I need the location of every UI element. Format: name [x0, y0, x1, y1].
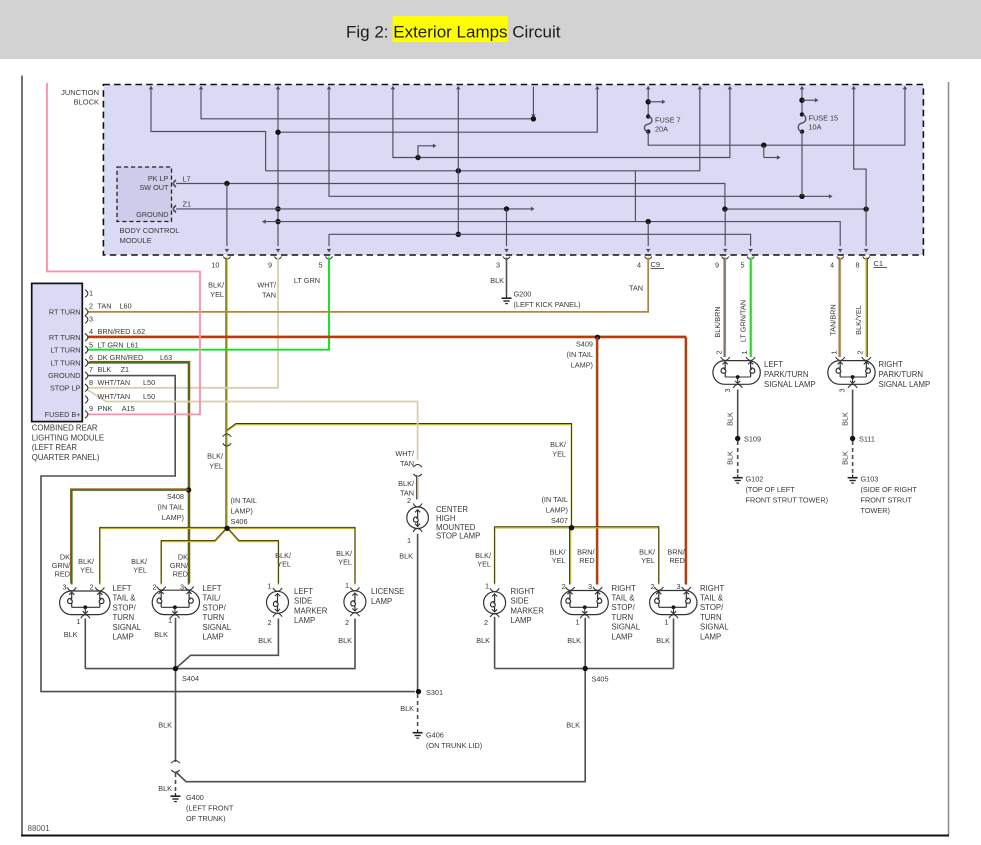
combined rear lighting module body — [32, 283, 83, 421]
svg-text:TAIL &: TAIL & — [113, 594, 137, 603]
svg-text:S405: S405 — [592, 674, 609, 683]
svg-text:SIGNAL LAMP: SIGNAL LAMP — [764, 380, 816, 389]
svg-text:1: 1 — [345, 581, 349, 590]
svg-text:RIGHT: RIGHT — [511, 587, 535, 596]
in-line connector WHT/TAN to BLK/TAN — [413, 465, 421, 468]
svg-text:BLK: BLK — [841, 451, 850, 465]
svg-text:BLK: BLK — [656, 636, 670, 645]
wire BLK right park lamp pin 3 to S111 — [852, 390, 854, 439]
svg-text:3: 3 — [89, 315, 93, 324]
svg-text:SIGNAL LAMP: SIGNAL LAMP — [879, 380, 931, 389]
JB jog arrow x763.8 — [763, 145, 765, 157]
svg-text:(IN TAIL: (IN TAIL — [231, 496, 258, 505]
svg-text:BLK/: BLK/ — [550, 440, 567, 449]
svg-text:S409: S409 — [576, 340, 593, 349]
svg-text:(TOP OF LEFT: (TOP OF LEFT — [746, 485, 796, 494]
svg-text:RED: RED — [579, 556, 594, 565]
svg-text:BODY CONTROL: BODY CONTROL — [120, 226, 180, 235]
svg-text:BLK: BLK — [490, 276, 504, 285]
svg-text:TAN: TAN — [262, 290, 276, 299]
svg-text:TAN/BRN: TAN/BRN — [829, 304, 838, 336]
wire BLK/YEL from JB pin 8 C1 to right park/turn lamp pin 2 — [865, 258, 867, 358]
diagram frame left border — [21, 76, 23, 836]
JB bus y157.5 with jog arrow — [393, 89, 730, 158]
svg-text:C1: C1 — [874, 259, 884, 268]
JB bus y196.3 from pin5 riser to fuse15 — [329, 89, 802, 196]
svg-text:MODULE: MODULE — [120, 236, 152, 245]
svg-text:MOUNTED: MOUNTED — [436, 523, 476, 532]
svg-text:YEL: YEL — [209, 461, 223, 470]
svg-text:BLK: BLK — [399, 552, 413, 561]
svg-text:LEFT: LEFT — [294, 587, 313, 596]
splice S409 — [595, 335, 600, 340]
svg-text:YEL: YEL — [133, 566, 147, 575]
svg-text:2: 2 — [345, 618, 349, 627]
right tail & stop/turn signal lamp 2 — [650, 591, 697, 615]
svg-text:1: 1 — [267, 582, 271, 591]
svg-text:2: 2 — [89, 583, 93, 592]
svg-text:2: 2 — [152, 583, 156, 592]
JB pin 10 internal drop x226.9 — [226, 184, 228, 247]
svg-text:2: 2 — [856, 350, 865, 354]
svg-text:BLK: BLK — [338, 636, 352, 645]
svg-text:8: 8 — [855, 260, 859, 269]
svg-text:WHT/TAN: WHT/TAN — [98, 392, 131, 401]
svg-text:7: 7 — [89, 365, 93, 374]
svg-text:PARK/TURN: PARK/TURN — [764, 370, 808, 379]
svg-text:9: 9 — [268, 260, 272, 269]
svg-text:COMBINED REAR: COMBINED REAR — [32, 424, 98, 433]
svg-text:RIGHT: RIGHT — [700, 584, 724, 593]
fuse 15 circuit — [801, 89, 803, 115]
wire WHT/TAN from JB pin 9 to module pin 8 — [88, 258, 278, 388]
svg-text:(ON TRUNK LID): (ON TRUNK LID) — [426, 741, 482, 750]
svg-text:10: 10 — [211, 260, 219, 269]
svg-text:20A: 20A — [655, 124, 668, 133]
svg-text:OF TRUNK): OF TRUNK) — [186, 814, 226, 823]
svg-text:STOP LAMP: STOP LAMP — [436, 532, 480, 541]
svg-text:G103: G103 — [861, 474, 879, 483]
svg-text:G102: G102 — [746, 474, 764, 483]
branch from connector to S405 drop — [176, 669, 586, 782]
svg-text:TURN: TURN — [113, 613, 135, 622]
svg-text:GROUND: GROUND — [48, 371, 80, 380]
svg-text:C9: C9 — [651, 260, 661, 269]
svg-text:QUARTER PANEL): QUARTER PANEL) — [32, 453, 100, 462]
svg-text:BLOCK: BLOCK — [74, 98, 99, 107]
splice S301 — [416, 689, 421, 694]
svg-text:SIGNAL: SIGNAL — [612, 623, 641, 632]
JB bus y132.2 from pin9 riser to top arrow x597 — [278, 89, 597, 132]
svg-text:3: 3 — [62, 583, 66, 592]
svg-text:BLK/BRN: BLK/BRN — [713, 306, 722, 337]
svg-text:BLK: BLK — [154, 630, 168, 639]
svg-text:TOWER): TOWER) — [861, 506, 890, 515]
svg-text:LAMP): LAMP) — [231, 506, 253, 515]
svg-text:TURN: TURN — [700, 613, 722, 622]
svg-text:LICENSE: LICENSE — [371, 587, 404, 596]
svg-text:WHT/TAN: WHT/TAN — [98, 378, 131, 387]
JB pin 9 internal riser x278 — [277, 89, 279, 246]
svg-text:3: 3 — [723, 388, 732, 392]
svg-text:RED: RED — [669, 556, 684, 565]
svg-text:S301: S301 — [426, 688, 443, 697]
svg-text:STOP/: STOP/ — [113, 603, 137, 612]
svg-text:CENTER: CENTER — [436, 505, 468, 514]
right side marker lamp — [484, 592, 506, 614]
svg-text:SIDE: SIDE — [511, 597, 529, 606]
wire BLK dashed S301 to G406 — [417, 694, 419, 729]
svg-text:PARK/TURN: PARK/TURN — [879, 370, 923, 379]
svg-text:SIGNAL: SIGNAL — [113, 623, 142, 632]
JB Z1 bus y208.9 — [176, 208, 531, 210]
svg-text:PNK: PNK — [98, 404, 113, 413]
svg-text:BLK: BLK — [726, 451, 735, 465]
wire BRN/RED drop to right tail lamp 1 pin 3 — [597, 337, 599, 584]
svg-text:LAMP: LAMP — [113, 633, 134, 642]
svg-text:2: 2 — [715, 350, 724, 354]
svg-text:1: 1 — [575, 617, 579, 626]
svg-text:2: 2 — [484, 618, 488, 627]
svg-text:HIGH: HIGH — [436, 514, 456, 523]
svg-text:(SIDE OF RIGHT: (SIDE OF RIGHT — [861, 485, 918, 494]
in-line connector on BLK to G400 — [171, 761, 179, 764]
svg-text:Z1: Z1 — [183, 200, 192, 209]
svg-text:TAN: TAN — [400, 459, 414, 468]
svg-text:4: 4 — [89, 327, 93, 336]
svg-text:5: 5 — [89, 341, 93, 350]
svg-text:LEFT: LEFT — [764, 360, 783, 369]
svg-text:DK GRN/RED: DK GRN/RED — [98, 353, 144, 362]
JB vertical drop x533 onto y118.8 bus — [532, 87, 534, 116]
svg-text:L50: L50 — [143, 392, 155, 401]
svg-text:2: 2 — [407, 496, 411, 505]
wire TAN from module pin 2 to JB pin 4 C9 — [88, 258, 648, 312]
svg-text:LAMP: LAMP — [294, 616, 315, 625]
svg-text:1: 1 — [664, 617, 668, 626]
svg-text:1: 1 — [168, 616, 172, 625]
svg-text:LAMP: LAMP — [700, 632, 721, 641]
svg-text:STOP/: STOP/ — [203, 603, 227, 612]
svg-text:Fig 2: Exterior Lamps Circuit: Fig 2: Exterior Lamps Circuit — [346, 23, 561, 42]
svg-text:1: 1 — [407, 536, 411, 545]
svg-text:SIDE: SIDE — [294, 597, 312, 606]
svg-text:RED: RED — [55, 570, 70, 579]
wire LT GRN from JB pin 5 to module pin 5 — [88, 258, 329, 350]
svg-text:FUSE 7: FUSE 7 — [655, 115, 681, 124]
svg-text:4: 4 — [637, 260, 641, 269]
svg-text:JUNCTION: JUNCTION — [61, 88, 99, 97]
svg-text:3: 3 — [838, 388, 847, 392]
svg-text:L7: L7 — [183, 174, 191, 183]
svg-text:TAIL/: TAIL/ — [203, 594, 222, 603]
BCM pin L7 — [173, 180, 176, 188]
svg-text:A15: A15 — [122, 404, 135, 413]
svg-text:BLK: BLK — [98, 365, 112, 374]
svg-text:LAMP: LAMP — [612, 632, 633, 641]
svg-text:YEL: YEL — [552, 556, 566, 565]
svg-text:BLK/: BLK/ — [398, 479, 415, 488]
title highlight — [393, 16, 508, 42]
svg-text:2: 2 — [650, 582, 654, 591]
wire BLK/YEL from JB pin 10 down to S406, with branch to S407 feed — [226, 258, 228, 529]
wire DK GRN/RED L63 from module pin 6 via S408 to left tail lamps pin 3 — [88, 363, 189, 585]
ground G400 — [175, 793, 177, 796]
wire BRN/RED L62 from module pin 4 to right tail lamps — [88, 336, 686, 338]
svg-text:YEL: YEL — [552, 449, 566, 458]
svg-text:S406: S406 — [231, 517, 248, 526]
ground G102 — [737, 475, 739, 478]
svg-text:BRN/RED: BRN/RED — [98, 327, 131, 336]
svg-text:2: 2 — [89, 301, 93, 310]
svg-text:3: 3 — [496, 260, 500, 269]
svg-text:S111: S111 — [859, 435, 875, 444]
ground G406 — [417, 730, 419, 733]
svg-text:LAMP): LAMP) — [571, 361, 593, 370]
wire BLK dashed to G400 — [175, 773, 177, 792]
JB pin labels row — [223, 257, 230, 260]
svg-text:S408: S408 — [167, 492, 184, 501]
svg-text:(IN TAIL: (IN TAIL — [542, 495, 569, 504]
svg-text:STOP LP: STOP LP — [50, 384, 81, 393]
wire BLK from center stop lamp to S301 — [417, 534, 419, 692]
svg-text:FRONT STRUT: FRONT STRUT — [861, 495, 913, 504]
svg-text:YEL: YEL — [641, 556, 655, 565]
svg-text:LT GRN/TAN: LT GRN/TAN — [738, 300, 747, 342]
JB bus y221.6 with left arrow — [266, 222, 841, 246]
svg-text:Z1: Z1 — [121, 365, 130, 374]
svg-text:LT TURN: LT TURN — [50, 358, 80, 367]
svg-text:GROUND: GROUND — [136, 210, 168, 219]
JB bus wire from top arrow x151 to y131.5 — [151, 89, 266, 171]
svg-text:6: 6 — [89, 353, 93, 362]
wire BLK left park lamp pin 3 to S109 — [737, 390, 739, 439]
svg-text:STOP/: STOP/ — [700, 603, 724, 612]
svg-text:(LEFT KICK PANEL): (LEFT KICK PANEL) — [514, 300, 581, 309]
svg-text:BLK: BLK — [400, 704, 414, 713]
svg-text:(IN TAIL: (IN TAIL — [158, 503, 185, 512]
svg-text:L61: L61 — [127, 341, 139, 350]
wire BLK dashed S109 to G102 — [737, 441, 739, 474]
svg-text:LEFT: LEFT — [113, 584, 132, 593]
svg-text:BLK: BLK — [476, 636, 490, 645]
svg-text:MARKER: MARKER — [511, 606, 545, 615]
svg-text:2: 2 — [561, 582, 565, 591]
JB internal riser x458 from top arrow to y234.3 — [457, 89, 459, 234]
svg-text:G400: G400 — [186, 793, 204, 802]
license lamp — [344, 591, 366, 613]
wire BLK dashed S111 to G103 — [852, 441, 854, 474]
left tail & stop/turn signal lamp — [60, 591, 110, 615]
center high mounted stop lamp bulb — [407, 507, 429, 529]
svg-text:LAMP: LAMP — [511, 616, 532, 625]
svg-text:G406: G406 — [426, 731, 444, 740]
svg-text:88001: 88001 — [28, 824, 51, 833]
svg-text:1: 1 — [830, 350, 839, 354]
svg-text:LT TURN: LT TURN — [50, 345, 80, 354]
svg-text:BLK: BLK — [64, 630, 78, 639]
JB pin 9 C1 internal drop x725.2 — [724, 209, 726, 246]
svg-text:3: 3 — [180, 583, 184, 592]
splice S404 network — [84, 619, 86, 669]
svg-text:S404: S404 — [182, 674, 199, 683]
svg-text:9: 9 — [715, 260, 719, 269]
svg-text:RT TURN: RT TURN — [49, 333, 81, 342]
svg-text:G200: G200 — [514, 289, 532, 298]
svg-text:S109: S109 — [744, 435, 761, 444]
svg-text:S407: S407 — [551, 516, 568, 525]
svg-text:(IN TAIL: (IN TAIL — [567, 350, 594, 359]
JB L7 bus y183.5 to right park feed — [176, 184, 866, 210]
svg-text:L60: L60 — [120, 301, 132, 310]
svg-text:LT GRN: LT GRN — [98, 341, 124, 350]
svg-text:TAIL &: TAIL & — [612, 594, 636, 603]
svg-text:3: 3 — [676, 582, 680, 591]
svg-text:3: 3 — [588, 582, 592, 591]
svg-text:TAN: TAN — [98, 301, 112, 310]
svg-text:MARKER: MARKER — [294, 606, 328, 615]
BCM pin Z1 — [173, 205, 176, 213]
JB pin 5 internal drop x329 — [328, 234, 330, 246]
header bar — [0, 0, 981, 59]
svg-text:YEL: YEL — [338, 558, 352, 567]
JB pin 8 C1 internal riser from top arrow x853.7 — [854, 89, 866, 246]
svg-text:LT GRN: LT GRN — [294, 276, 320, 285]
svg-text:BLK: BLK — [258, 636, 272, 645]
svg-text:BLK/: BLK/ — [207, 452, 224, 461]
svg-text:10A: 10A — [809, 123, 822, 132]
ground G103 — [852, 475, 854, 478]
svg-text:STOP/: STOP/ — [612, 603, 636, 612]
svg-text:1: 1 — [485, 582, 489, 591]
svg-text:LAMP: LAMP — [371, 597, 392, 606]
svg-text:RT TURN: RT TURN — [49, 308, 81, 317]
splice S408 — [186, 487, 191, 492]
svg-text:BLK: BLK — [566, 721, 580, 730]
svg-text:5: 5 — [740, 260, 744, 269]
left side marker lamp — [267, 591, 289, 613]
svg-text:BLK: BLK — [567, 636, 581, 645]
svg-text:YEL: YEL — [80, 566, 94, 575]
svg-text:2: 2 — [267, 618, 271, 627]
wire TAN/BRN from JB pin 4 C1 to right park/turn lamp pin 1 — [839, 258, 841, 358]
svg-text:SIGNAL: SIGNAL — [700, 623, 729, 632]
svg-text:FUSE 15: FUSE 15 — [809, 114, 839, 123]
wire PNK A15 fused B+ from module pin 9 — [47, 83, 200, 414]
JB bus y234.3 to pin5 C1 — [329, 234, 751, 246]
svg-text:4: 4 — [830, 260, 834, 269]
svg-text:YEL: YEL — [210, 290, 224, 299]
svg-text:TURN: TURN — [203, 613, 225, 622]
svg-text:5: 5 — [318, 260, 322, 269]
svg-text:SW OUT: SW OUT — [139, 183, 169, 192]
svg-text:1: 1 — [89, 289, 93, 298]
svg-text:LAMP): LAMP) — [162, 513, 184, 522]
wire BLK Z1 from module pin 7 to S301 — [41, 376, 415, 692]
svg-text:YEL: YEL — [477, 560, 491, 569]
svg-text:BLK: BLK — [726, 412, 735, 426]
body control module box (PK LP SW OUT / GROUND) — [117, 167, 172, 222]
svg-text:LIGHTING MODULE: LIGHTING MODULE — [32, 434, 104, 443]
svg-text:TAN: TAN — [629, 283, 643, 292]
wire BLK/BRN from JB pin 9 C1 to left park/turn lamp pin 2 — [724, 258, 726, 358]
JB pin 3 internal drop x506.5 — [506, 209, 508, 246]
svg-text:RIGHT: RIGHT — [879, 360, 903, 369]
svg-text:8: 8 — [89, 378, 93, 387]
splice S407 and BLK/YEL branches to right lamps — [495, 528, 659, 585]
splice S405 network — [494, 617, 496, 669]
svg-text:BLK/YEL: BLK/YEL — [854, 305, 863, 335]
right tail & stop/turn signal lamp — [561, 591, 608, 615]
svg-text:TAIL &: TAIL & — [700, 594, 724, 603]
ground G200 — [506, 295, 508, 298]
svg-text:RED: RED — [173, 570, 188, 579]
diagram frame right border — [948, 82, 950, 836]
fuse 7 circuit — [647, 89, 649, 117]
svg-text:BLK: BLK — [158, 784, 172, 793]
wire BLK from JB pin 3 to ground G200 — [506, 258, 508, 296]
right park/turn signal lamp — [828, 361, 875, 385]
svg-text:FUSED B+: FUSED B+ — [45, 410, 81, 419]
svg-text:YEL: YEL — [277, 560, 291, 569]
JB riser x635.4 between buses — [634, 171, 636, 222]
splice S406 and BLK/YEL branches to left lamps — [100, 528, 355, 584]
svg-text:L63: L63 — [160, 353, 172, 362]
svg-text:FRONT STRUT TOWER): FRONT STRUT TOWER) — [746, 495, 829, 504]
svg-text:1: 1 — [740, 350, 749, 354]
wire LT GRN/TAN from JB pin 5 C1 to left park/turn lamp pin 1 — [750, 258, 752, 358]
JB bus y170.8 — [266, 89, 700, 171]
svg-text:WHT/: WHT/ — [257, 281, 277, 290]
wire WHT/TAN L50 branch from module pin 8 to center stop lamp — [87, 390, 418, 461]
svg-text:BLK/: BLK/ — [208, 280, 225, 289]
splice S109 — [735, 436, 740, 441]
svg-text:LAMP: LAMP — [203, 633, 224, 642]
svg-text:PK LP: PK LP — [148, 174, 169, 183]
svg-text:BLK: BLK — [841, 412, 850, 426]
svg-text:SIGNAL: SIGNAL — [203, 623, 232, 632]
svg-text:9: 9 — [89, 404, 93, 413]
svg-text:LAMP): LAMP) — [546, 506, 568, 515]
svg-text:(LEFT REAR: (LEFT REAR — [32, 443, 78, 452]
junction block body — [103, 85, 923, 256]
wire BRN/RED drop to right tail lamp 2 pin 3 — [685, 337, 687, 584]
svg-text:TURN: TURN — [612, 613, 634, 622]
svg-text:1: 1 — [76, 617, 80, 626]
left park/turn signal lamp — [713, 361, 760, 385]
svg-text:BLK: BLK — [158, 721, 172, 730]
JB pin 4 C9 internal drop x648.2 — [647, 222, 649, 246]
JB bus wire from top arrow x201 across y118.8 — [201, 89, 533, 119]
svg-text:WHT/: WHT/ — [395, 449, 415, 458]
splice S111 — [850, 436, 855, 441]
svg-text:LEFT: LEFT — [203, 584, 222, 593]
left tail/stop/turn signal lamp 2 — [152, 590, 199, 614]
svg-text:L50: L50 — [143, 378, 155, 387]
svg-text:RIGHT: RIGHT — [612, 584, 636, 593]
svg-text:L62: L62 — [133, 327, 145, 336]
diagram frame bottom border — [21, 835, 949, 837]
svg-text:(LEFT FRONT: (LEFT FRONT — [186, 804, 234, 813]
